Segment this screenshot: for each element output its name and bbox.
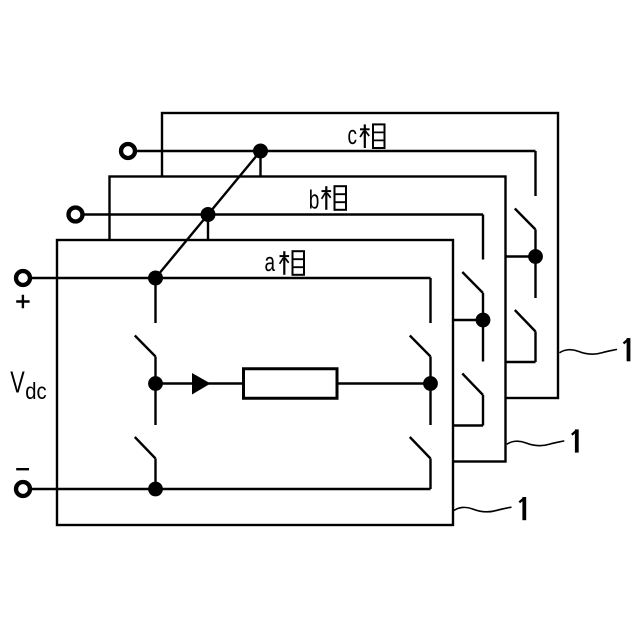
svg-text:c: c [348, 120, 357, 150]
svg-text:dc: dc [25, 378, 47, 405]
svg-text:V: V [10, 364, 25, 399]
svg-text:b: b [309, 185, 320, 215]
svg-text:a: a [265, 247, 276, 277]
